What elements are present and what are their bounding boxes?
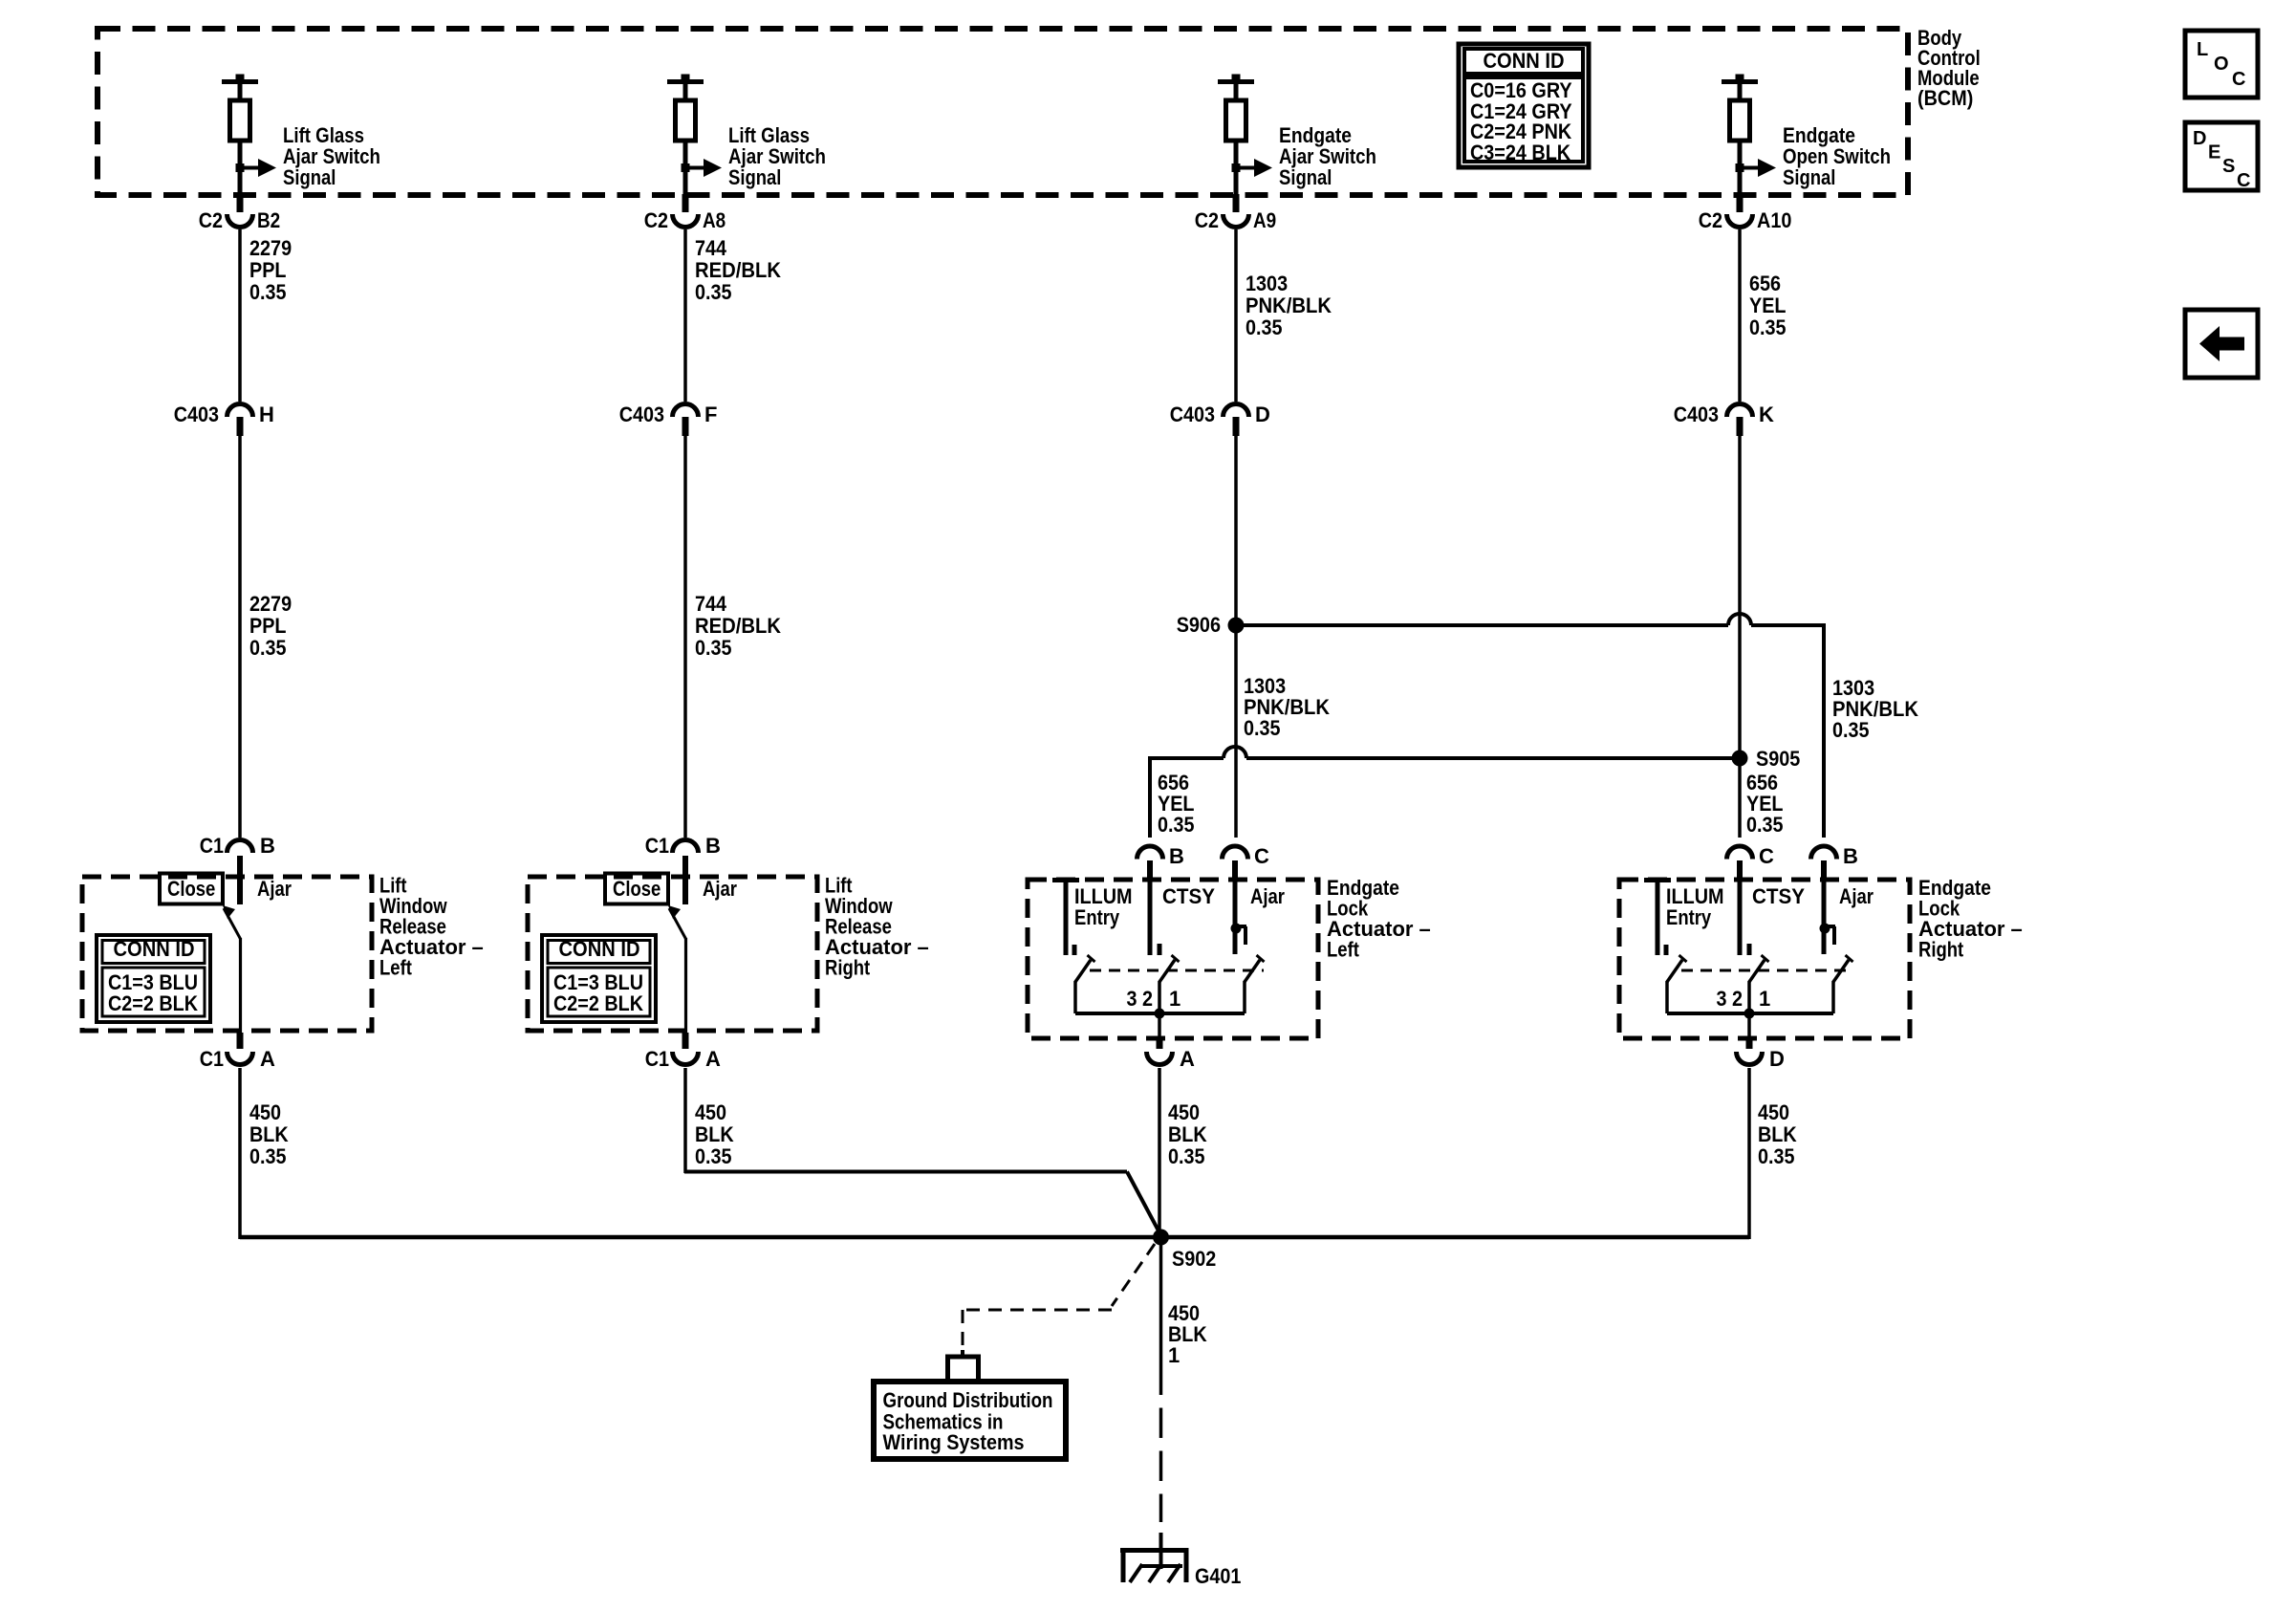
svg-text:0.35: 0.35 bbox=[695, 636, 732, 660]
svg-text:Right: Right bbox=[825, 956, 871, 980]
wire S905 to left (hops wire3) bbox=[1150, 747, 1740, 838]
svg-text:C1: C1 bbox=[200, 834, 224, 858]
Ajar fixed contact stub bbox=[237, 856, 243, 904]
connector C403 pin K bbox=[1674, 403, 1774, 436]
ILLUM Entry contact bbox=[1644, 880, 1724, 955]
svg-text:A: A bbox=[705, 1047, 721, 1071]
svg-text:A8: A8 bbox=[703, 208, 726, 232]
pin bus inside actuator bbox=[1667, 981, 1833, 1038]
svg-text:450: 450 bbox=[695, 1100, 726, 1124]
svg-text:YEL: YEL bbox=[1749, 294, 1787, 317]
wire resistor to connector bbox=[683, 141, 688, 194]
wire C403-K down to S905 bbox=[1738, 436, 1742, 758]
svg-text:0.35: 0.35 bbox=[1245, 316, 1283, 339]
svg-text:744: 744 bbox=[695, 236, 727, 260]
svg-text:450: 450 bbox=[1168, 1100, 1200, 1124]
wire C403-D down to S906 bbox=[1234, 436, 1238, 625]
svg-text:D: D bbox=[1255, 403, 1270, 426]
svg-text:S905: S905 bbox=[1756, 747, 1800, 771]
svg-text:(BCM): (BCM) bbox=[1917, 86, 1973, 110]
wire S906 down to left endgate actuator bbox=[1234, 625, 1238, 838]
wire label 450 BLK 0.35 bbox=[695, 1100, 734, 1168]
svg-text:Close: Close bbox=[613, 877, 661, 901]
wire C403 down to lift actuator, x=717 bbox=[683, 436, 687, 838]
Lift Window Release Actuator left dashed box bbox=[82, 877, 372, 1031]
ground G401 symbol bbox=[1120, 1548, 1241, 1588]
svg-text:B2: B2 bbox=[257, 208, 280, 232]
svg-text:2279: 2279 bbox=[249, 592, 292, 616]
pull-up resistor of branch B2 bbox=[230, 100, 250, 141]
Endgate Lock Actuator right dashed box bbox=[1619, 880, 1910, 1038]
svg-text:Right: Right bbox=[1918, 938, 1964, 962]
svg-text:H: H bbox=[259, 403, 274, 426]
svg-text:C403: C403 bbox=[1674, 403, 1719, 426]
signal tap arrow (Endgate Open Switch Signal) bbox=[1736, 123, 1892, 189]
wire resistor to connector bbox=[238, 141, 243, 194]
svg-text:0.35: 0.35 bbox=[1158, 813, 1195, 837]
svg-text:Signal: Signal bbox=[728, 165, 781, 189]
connector pin C (left endgate actuator Ajar feed) bbox=[1223, 844, 1270, 880]
svg-text:Entry: Entry bbox=[1666, 905, 1712, 929]
BCM internal switch-sense branch at x=717 bbox=[667, 75, 704, 103]
svg-text:BLK: BLK bbox=[1758, 1122, 1797, 1146]
wire C1-A left lift actuator to S902 bus bbox=[238, 1068, 242, 1239]
svg-text:Left: Left bbox=[1327, 938, 1359, 962]
svg-text:C3=24 BLK: C3=24 BLK bbox=[1470, 141, 1570, 164]
svg-text:K: K bbox=[1759, 403, 1774, 426]
BCM internal switch-sense branch at x=251 bbox=[222, 75, 258, 103]
BCM internal switch-sense branch at x=1293 bbox=[1218, 75, 1254, 103]
connector C1 pin A (left lift actuator) bbox=[200, 1033, 275, 1071]
splice S905 bbox=[1732, 747, 1801, 771]
CONN ID table (lift actuator) bbox=[97, 935, 210, 1022]
svg-text:D: D bbox=[2193, 128, 2206, 149]
svg-text:1303: 1303 bbox=[1245, 272, 1288, 295]
wire label block below C2 A8 bbox=[695, 236, 781, 304]
switch blades bbox=[1075, 955, 1265, 982]
svg-text:L: L bbox=[2197, 39, 2208, 60]
wire label 450 BLK 0.35 bbox=[1168, 1100, 1207, 1168]
connector pin B (left endgate actuator CTSY feed) bbox=[1137, 844, 1184, 880]
pull-up resistor of branch A9 bbox=[1226, 100, 1246, 141]
svg-text:S: S bbox=[2222, 156, 2235, 177]
svg-text:744: 744 bbox=[695, 592, 727, 616]
Body Control Module (BCM) label bbox=[1917, 26, 1981, 110]
DESC reference box bbox=[2185, 122, 2258, 191]
svg-text:BLK: BLK bbox=[695, 1122, 734, 1146]
svg-text:Ground Distribution: Ground Distribution bbox=[883, 1388, 1053, 1412]
svg-text:C403: C403 bbox=[1170, 403, 1215, 426]
Lift Window Release Actuator Left label bbox=[379, 874, 484, 980]
mid wire label 744 RED/BLK bbox=[695, 592, 781, 660]
svg-text:0.35: 0.35 bbox=[249, 636, 287, 660]
switch blades bbox=[1667, 955, 1853, 982]
signal tap arrow (Lift Glass Ajar Switch Signal) bbox=[682, 123, 827, 189]
connector C2 pin B2 bbox=[199, 194, 281, 232]
switch linkage dashed line bbox=[1090, 969, 1264, 972]
connector pin B (right endgate actuator Ajar feed) bbox=[1811, 844, 1858, 880]
switch blade with arrowhead bbox=[223, 905, 241, 1033]
svg-text:656: 656 bbox=[1749, 272, 1781, 295]
svg-text:BLK: BLK bbox=[1168, 1122, 1207, 1146]
mid wire label 2279 PPL bbox=[249, 592, 292, 660]
CTSY contact bbox=[1740, 880, 1805, 955]
switch linkage dashed line bbox=[1681, 969, 1852, 972]
svg-text:CTSY: CTSY bbox=[1162, 884, 1215, 908]
svg-text:PNK/BLK: PNK/BLK bbox=[1245, 294, 1332, 317]
wire C2 to C403 bbox=[1234, 229, 1238, 402]
svg-text:Ajar: Ajar bbox=[257, 877, 292, 901]
svg-text:2279: 2279 bbox=[249, 236, 292, 260]
wire label 656 YEL 0.35 (left) bbox=[1158, 771, 1195, 837]
connector C403 pin H bbox=[174, 403, 274, 436]
svg-text:3 2: 3 2 bbox=[1717, 987, 1744, 1011]
wire C2 to C403 bbox=[238, 229, 242, 402]
svg-text:A: A bbox=[260, 1047, 275, 1071]
svg-text:B: B bbox=[260, 834, 275, 858]
svg-text:0.35: 0.35 bbox=[695, 280, 732, 304]
splice S902 bbox=[1153, 1230, 1216, 1272]
wire C1-A right lift actuator to S902 (jog) bbox=[684, 1068, 1161, 1235]
svg-text:BLK: BLK bbox=[249, 1122, 289, 1146]
Ajar fixed contact stub bbox=[682, 856, 688, 904]
svg-text:0.35: 0.35 bbox=[695, 1144, 732, 1168]
svg-text:CONN ID: CONN ID bbox=[559, 937, 640, 961]
connector C403 pin F bbox=[619, 403, 718, 436]
svg-text:1: 1 bbox=[1169, 987, 1180, 1011]
Lift Window Release Actuator Right label bbox=[825, 874, 929, 980]
connector C403 pin D bbox=[1170, 403, 1270, 436]
Ground Distribution note box bbox=[874, 1382, 1066, 1459]
svg-text:B: B bbox=[1169, 844, 1184, 868]
svg-text:Entry: Entry bbox=[1074, 905, 1120, 929]
svg-text:0.35: 0.35 bbox=[249, 1144, 287, 1168]
switch blade with arrowhead bbox=[668, 905, 686, 1033]
back-arrow navigation box bbox=[2185, 310, 2258, 378]
svg-text:0.35: 0.35 bbox=[1832, 718, 1870, 742]
svg-text:RED/BLK: RED/BLK bbox=[695, 258, 781, 282]
signal tap arrow (Lift Glass Ajar Switch Signal) bbox=[236, 123, 381, 189]
svg-text:B: B bbox=[705, 834, 721, 858]
CONN ID table (BCM connectors) bbox=[1459, 44, 1589, 167]
svg-text:0.35: 0.35 bbox=[1746, 813, 1784, 837]
wire C2 to C403 bbox=[1738, 229, 1742, 402]
wire label 450 BLK 0.35 bbox=[1758, 1100, 1797, 1168]
svg-text:C: C bbox=[2232, 69, 2245, 90]
svg-text:C403: C403 bbox=[174, 403, 219, 426]
wire label 450 BLK 0.35 bbox=[249, 1100, 289, 1168]
svg-text:Left: Left bbox=[379, 956, 412, 980]
connector pin A (left endgate actuator return) bbox=[1147, 1038, 1196, 1071]
svg-text:3 2: 3 2 bbox=[1127, 987, 1154, 1011]
svg-text:450: 450 bbox=[249, 1100, 281, 1124]
wire S905 down to right endgate actuator bbox=[1738, 758, 1742, 838]
CTSY contact bbox=[1150, 880, 1215, 955]
svg-text:C1: C1 bbox=[645, 1047, 669, 1071]
wire label block below C2 A10 bbox=[1749, 272, 1787, 339]
svg-text:CONN ID: CONN ID bbox=[114, 937, 195, 961]
wire C2 to C403 bbox=[683, 229, 687, 402]
wire right endgate D down to bus corner bbox=[1747, 1068, 1751, 1239]
Close label box bbox=[160, 874, 292, 904]
svg-text:C: C bbox=[1254, 844, 1269, 868]
pull-up resistor of branch A10 bbox=[1730, 100, 1750, 141]
ground bus wire 450 BLK bbox=[240, 1235, 1749, 1240]
wire resistor to connector bbox=[1234, 141, 1239, 194]
wire label 450 BLK 1 bbox=[1168, 1301, 1207, 1367]
connector C2 pin A10 bbox=[1699, 194, 1792, 232]
svg-text:Signal: Signal bbox=[1279, 165, 1332, 189]
svg-text:C2: C2 bbox=[644, 208, 668, 232]
svg-text:0.35: 0.35 bbox=[249, 280, 287, 304]
svg-text:Ajar: Ajar bbox=[1839, 884, 1874, 908]
connector C2 pin A9 bbox=[1195, 194, 1277, 232]
wire label 656 YEL 0.35 (right) bbox=[1746, 771, 1784, 837]
svg-text:Signal: Signal bbox=[283, 165, 336, 189]
svg-text:F: F bbox=[704, 403, 717, 426]
wire S906 to right branch (hops wire4) bbox=[1236, 614, 1824, 838]
svg-text:O: O bbox=[2214, 54, 2229, 75]
svg-text:0.35: 0.35 bbox=[1758, 1144, 1795, 1168]
svg-text:S906: S906 bbox=[1177, 613, 1221, 637]
wire S906 label 1303 PNK/BLK 0.35 bbox=[1244, 674, 1330, 740]
pin bus inside actuator bbox=[1075, 981, 1245, 1038]
svg-text:C2=2 BLK: C2=2 BLK bbox=[553, 991, 643, 1015]
connector C1 pin B (right lift actuator) bbox=[645, 834, 721, 858]
wire C403 down to lift actuator, x=251 bbox=[238, 436, 242, 838]
svg-text:C2: C2 bbox=[199, 208, 223, 232]
svg-text:A10: A10 bbox=[1757, 208, 1791, 232]
Endgate Lock Actuator Left label bbox=[1327, 876, 1431, 962]
svg-text:0.35: 0.35 bbox=[1244, 716, 1281, 740]
dashed reference tap to ground distribution note bbox=[963, 1244, 1155, 1350]
svg-text:Wiring Systems: Wiring Systems bbox=[883, 1430, 1025, 1454]
svg-text:C2=2 BLK: C2=2 BLK bbox=[108, 991, 198, 1015]
connector pin D (right endgate actuator return) bbox=[1737, 1038, 1785, 1071]
svg-text:A9: A9 bbox=[1253, 208, 1276, 232]
svg-text:E: E bbox=[2208, 142, 2220, 163]
svg-text:0.35: 0.35 bbox=[1168, 1144, 1205, 1168]
svg-text:PPL: PPL bbox=[249, 258, 287, 282]
svg-text:1: 1 bbox=[1168, 1343, 1180, 1367]
signal tap arrow (Endgate Ajar Switch Signal) bbox=[1232, 123, 1377, 189]
svg-text:C1: C1 bbox=[200, 1047, 224, 1071]
svg-text:B: B bbox=[1843, 844, 1858, 868]
Close label box bbox=[605, 874, 737, 904]
svg-text:PPL: PPL bbox=[249, 614, 287, 638]
svg-text:RED/BLK: RED/BLK bbox=[695, 614, 781, 638]
svg-text:C403: C403 bbox=[619, 403, 664, 426]
svg-text:S902: S902 bbox=[1172, 1247, 1216, 1271]
splice S906 bbox=[1177, 613, 1245, 637]
CONN ID table (lift actuator) bbox=[542, 935, 656, 1022]
wire label 1303 PNK/BLK 0.35 (right drop) bbox=[1832, 676, 1918, 742]
off-page connector fork symbol bbox=[945, 1350, 981, 1379]
svg-text:CTSY: CTSY bbox=[1752, 884, 1805, 908]
svg-text:0.35: 0.35 bbox=[1749, 316, 1787, 339]
wire label block below C2 B2 bbox=[249, 236, 292, 304]
Ajar contact with latch hook bbox=[1231, 880, 1286, 954]
svg-text:A: A bbox=[1180, 1047, 1195, 1071]
Ajar contact with latch hook bbox=[1820, 880, 1874, 954]
wire label block below C2 A9 bbox=[1245, 272, 1332, 339]
BCM dashed box outline bbox=[97, 29, 1908, 195]
svg-text:1: 1 bbox=[1759, 987, 1770, 1011]
svg-text:C2: C2 bbox=[1699, 208, 1722, 232]
svg-text:Ajar: Ajar bbox=[1250, 884, 1285, 908]
svg-text:G401: G401 bbox=[1195, 1564, 1241, 1588]
Endgate Lock Actuator left dashed box bbox=[1028, 880, 1318, 1038]
connector C2 pin A8 bbox=[644, 194, 726, 232]
svg-text:Signal: Signal bbox=[1783, 165, 1835, 189]
svg-text:C: C bbox=[1759, 844, 1774, 868]
wire S902 to G401 (part solid, part dashed) bbox=[1159, 1237, 1163, 1569]
connector C1 pin A (right lift actuator) bbox=[645, 1033, 721, 1071]
connector pin C (right endgate actuator CTSY feed) bbox=[1727, 844, 1775, 880]
wire left endgate A to S902 bbox=[1158, 1068, 1161, 1237]
Lift Window Release Actuator right dashed box bbox=[528, 877, 817, 1031]
svg-text:C: C bbox=[2237, 170, 2250, 191]
LOC reference box bbox=[2185, 31, 2258, 98]
Endgate Lock Actuator Right label bbox=[1918, 876, 2023, 962]
svg-text:450: 450 bbox=[1758, 1100, 1789, 1124]
pull-up resistor of branch A8 bbox=[676, 100, 696, 141]
svg-text:D: D bbox=[1769, 1047, 1785, 1071]
connector C1 pin B (left lift actuator) bbox=[200, 834, 275, 858]
svg-text:Close: Close bbox=[167, 877, 215, 901]
svg-text:Ajar: Ajar bbox=[703, 877, 737, 901]
BCM internal switch-sense branch at x=1820 bbox=[1722, 75, 1758, 103]
svg-text:C2: C2 bbox=[1195, 208, 1219, 232]
wire resistor to connector bbox=[1738, 141, 1743, 194]
ILLUM Entry contact bbox=[1052, 880, 1133, 955]
svg-text:C1: C1 bbox=[645, 834, 669, 858]
svg-text:CONN ID: CONN ID bbox=[1484, 49, 1565, 73]
